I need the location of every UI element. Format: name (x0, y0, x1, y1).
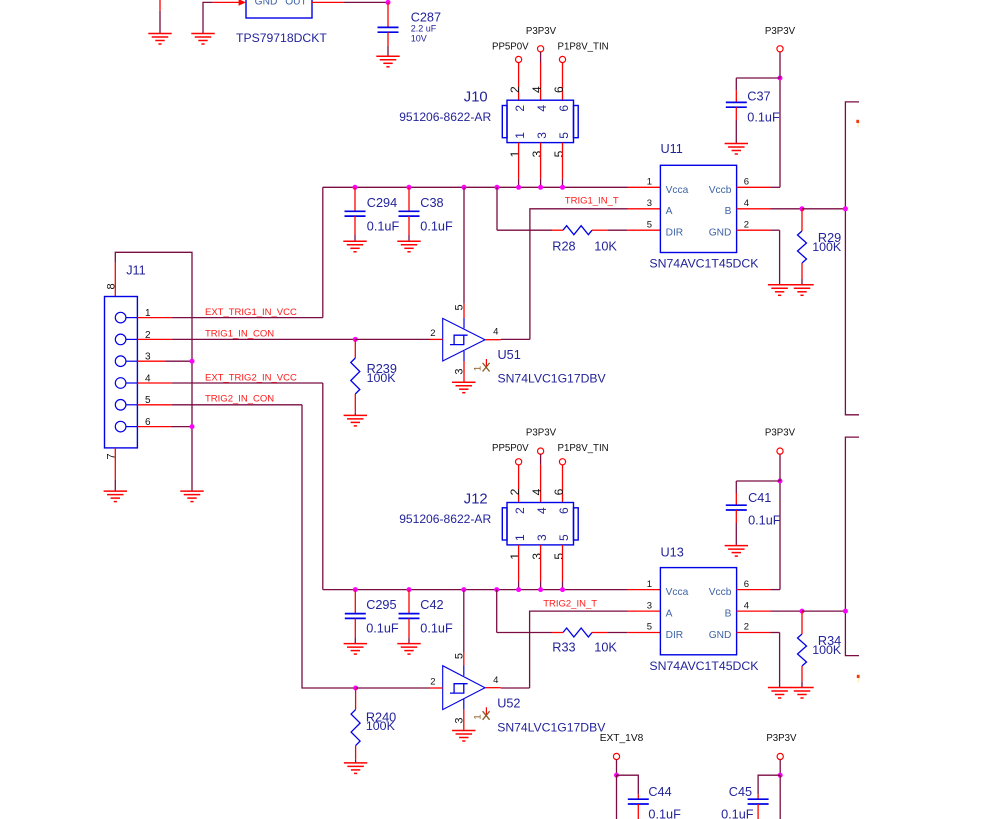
ground (397, 240, 420, 242)
resistor R33 10K (563, 628, 592, 637)
svg-text:OUT: OUT (285, 0, 307, 8)
wire bus to U52 pin 5 (463, 590, 465, 652)
svg-text:1: 1 (647, 177, 652, 188)
svg-text:Vcca: Vcca (666, 185, 689, 196)
capacitor C45 (758, 775, 780, 794)
svg-text:R33: R33 (552, 641, 575, 655)
ground (344, 414, 367, 416)
svg-text:B: B (725, 609, 732, 620)
svg-text:3: 3 (530, 553, 544, 560)
wire from ground up to regulator GND pin (203, 2, 213, 33)
wire B net (737, 208, 771, 210)
svg-text:B: B (725, 206, 732, 217)
svg-text:100K: 100K (812, 643, 842, 657)
wire J11 pin 3 to ground bus (137, 360, 165, 362)
voltage regulator TPS79718DCKT box (cut at top) (246, 0, 312, 18)
ground (343, 240, 366, 242)
wire TRIG1_IN_T from U51 out to U11 A (530, 209, 628, 340)
wire input to regulator GND net (159, 0, 161, 11)
svg-text:C42: C42 (420, 598, 443, 612)
svg-text:A: A (666, 206, 673, 217)
svg-text:2: 2 (513, 507, 527, 514)
resistor R28 10K (563, 226, 592, 235)
svg-text:1: 1 (513, 132, 527, 139)
wire J11 pin 7 to ground (114, 448, 116, 480)
svg-text:10K: 10K (594, 240, 617, 254)
ground (148, 33, 171, 35)
svg-text:6: 6 (744, 177, 749, 188)
power P3P3V right lower (779, 454, 781, 481)
ground (790, 284, 813, 286)
wire bus to U51 pin 5 (463, 187, 465, 303)
ground (104, 490, 127, 492)
svg-text:6: 6 (744, 579, 749, 590)
svg-text:DIR: DIR (666, 228, 684, 239)
wire Vccb net to P3P3V (737, 589, 771, 591)
no-connect pin 1 of U52 (485, 707, 487, 716)
svg-text:P3P3V: P3P3V (765, 428, 796, 439)
junction (778, 76, 783, 81)
svg-text:Vcca: Vcca (666, 587, 689, 598)
wire P3P3V down (779, 775, 781, 819)
svg-text:10K: 10K (594, 641, 617, 655)
svg-text:C294: C294 (367, 196, 397, 210)
svg-text:2: 2 (513, 105, 527, 112)
capacitor C38 (408, 187, 410, 211)
svg-text:EXT_TRIG2_IN_VCC: EXT_TRIG2_IN_VCC (205, 373, 297, 384)
wire TRIG1_IN_CON from J11 pin 2 (137, 338, 171, 340)
svg-text:4: 4 (744, 198, 749, 209)
right rail wire upper (845, 102, 859, 415)
svg-text:C287: C287 (411, 11, 441, 25)
svg-text:0.1uF: 0.1uF (366, 622, 399, 636)
svg-text:J12: J12 (464, 492, 488, 508)
svg-text:6: 6 (552, 86, 566, 93)
wires J12 pins 1 3 5 to bus (518, 545, 520, 581)
ground (452, 381, 475, 383)
svg-text:P3P3V: P3P3V (766, 733, 797, 744)
svg-text:C41: C41 (748, 491, 771, 505)
capacitor C295 (354, 590, 356, 614)
svg-text:1: 1 (647, 579, 652, 590)
svg-text:3: 3 (453, 717, 465, 723)
capacitor C42 (408, 590, 410, 614)
svg-text:Vccb: Vccb (709, 587, 732, 598)
capacitor C37 (736, 77, 780, 79)
capacitor C287 (387, 2, 389, 27)
wire GND pin net (737, 229, 771, 231)
svg-text:SN74AVC1T45DCK: SN74AVC1T45DCK (649, 659, 759, 673)
svg-text:0.1uF: 0.1uF (648, 808, 681, 819)
svg-text:J11: J11 (126, 263, 146, 277)
junction (353, 686, 358, 691)
junction nodes on bus (353, 587, 358, 592)
svg-text:1: 1 (472, 714, 483, 719)
svg-text:2: 2 (508, 488, 522, 495)
svg-text:TRIG1_IN_CON: TRIG1_IN_CON (205, 328, 274, 339)
svg-text:GND: GND (709, 228, 732, 239)
svg-text:C295: C295 (366, 598, 396, 612)
ground (397, 643, 420, 645)
svg-text:6: 6 (557, 105, 571, 112)
svg-text:TPS79718DCKT: TPS79718DCKT (236, 31, 327, 45)
svg-text:3: 3 (647, 198, 652, 209)
svg-text:SN74AVC1T45DCK: SN74AVC1T45DCK (649, 256, 759, 270)
svg-text:0.1uF: 0.1uF (747, 110, 780, 124)
svg-text:3: 3 (530, 150, 544, 157)
wires J10 pins 1 3 5 to bus (518, 143, 520, 179)
op-amp buffer U51 SN74LVC1G17DBV (443, 318, 485, 361)
svg-text:2.2 uF: 2.2 uF (411, 24, 437, 34)
svg-text:C44: C44 (648, 785, 671, 799)
svg-text:8: 8 (105, 283, 117, 289)
svg-text:P1P8V_TIN: P1P8V_TIN (558, 443, 609, 454)
svg-text:5: 5 (453, 653, 465, 659)
wire Vccb net to P3P3V (737, 186, 771, 188)
no-connect pin 1 of U51 (485, 359, 487, 368)
ground (725, 545, 748, 547)
svg-text:100K: 100K (367, 371, 397, 385)
svg-text:A: A (666, 609, 673, 620)
ground (344, 762, 367, 764)
ground (191, 33, 214, 35)
svg-text:P1P8V_TIN: P1P8V_TIN (558, 41, 609, 52)
svg-text:10V: 10V (411, 33, 427, 43)
svg-text:0.1uF: 0.1uF (721, 808, 754, 819)
svg-text:U51: U51 (498, 348, 521, 362)
wire bus EXT_TRIG2_IN_VCC (323, 589, 628, 591)
svg-text:4: 4 (493, 327, 498, 338)
svg-text:0.1uF: 0.1uF (748, 513, 781, 527)
capacitor C41 (736, 480, 780, 482)
capacitor C44 (617, 775, 639, 794)
svg-text:1: 1 (513, 534, 527, 541)
svg-text:2: 2 (744, 622, 749, 633)
svg-text:1: 1 (472, 366, 483, 371)
svg-text:J10: J10 (464, 89, 488, 105)
svg-text:SN74LVC1G17DBV: SN74LVC1G17DBV (498, 372, 607, 386)
svg-text:PP5P0V: PP5P0V (492, 443, 529, 454)
ground (768, 284, 791, 286)
op-amp buffer U52 SN74LVC1G17DBV (443, 666, 485, 710)
svg-text:C38: C38 (420, 196, 443, 210)
wire TRIG2_IN_T from U52 out to U13 A (530, 611, 628, 688)
svg-text:PP5P0V: PP5P0V (492, 41, 529, 52)
junction nodes on bus (353, 185, 358, 190)
ground (725, 143, 748, 145)
svg-text:GND: GND (255, 0, 278, 8)
svg-text:Vccb: Vccb (709, 185, 732, 196)
svg-text:P3P3V: P3P3V (526, 428, 557, 439)
svg-text:U11: U11 (661, 142, 683, 156)
power P3P3V right (779, 52, 781, 78)
svg-text:100K: 100K (812, 240, 842, 254)
svg-text:0.1uF: 0.1uF (420, 622, 453, 636)
svg-text:3: 3 (535, 132, 549, 139)
wire U51 pin 3 to ground (463, 351, 465, 361)
svg-text:4: 4 (535, 507, 549, 514)
svg-text:3: 3 (647, 600, 652, 611)
svg-text:5: 5 (557, 534, 571, 541)
svg-text:1: 1 (508, 150, 522, 157)
IC U13 SN74AVC1T45DCK (660, 568, 736, 655)
ground (452, 730, 475, 732)
svg-text:2: 2 (430, 328, 435, 339)
junction (386, 0, 391, 5)
wire B net lower (737, 610, 771, 612)
svg-text:6: 6 (557, 507, 571, 514)
svg-text:TRIG2_IN_CON: TRIG2_IN_CON (205, 394, 274, 405)
svg-text:4: 4 (530, 86, 544, 93)
connector J11 (105, 297, 138, 448)
svg-text:5: 5 (552, 150, 566, 157)
svg-text:2: 2 (508, 86, 522, 93)
ground (376, 55, 399, 57)
svg-text:2: 2 (744, 219, 749, 230)
svg-text:EXT_TRIG1_IN_VCC: EXT_TRIG1_IN_VCC (205, 307, 297, 318)
svg-text:EXT_1V8: EXT_1V8 (600, 733, 644, 744)
junction (778, 479, 783, 484)
wire bus EXT_TRIG1_IN_VCC (323, 186, 628, 188)
resistor R240 100K (355, 688, 357, 710)
svg-text:P3P3V: P3P3V (765, 26, 796, 37)
svg-text:6: 6 (552, 488, 566, 495)
connector J10 (507, 100, 574, 142)
svg-text:5: 5 (552, 553, 566, 560)
resistor R29 100K (801, 209, 803, 231)
wire EXT_1V8 down (616, 775, 618, 819)
wire TRIG2_IN_CON from J11 pin 5 (137, 404, 171, 406)
svg-text:0.1uF: 0.1uF (420, 219, 453, 233)
svg-text:SN74LVC1G17DBV: SN74LVC1G17DBV (497, 721, 606, 735)
svg-text:DIR: DIR (666, 630, 684, 641)
svg-text:0.1uF: 0.1uF (367, 219, 400, 233)
svg-text:100K: 100K (366, 719, 396, 733)
svg-text:3: 3 (535, 534, 549, 541)
svg-text:951206-8622-AR: 951206-8622-AR (399, 512, 491, 526)
svg-text:P3P3V: P3P3V (526, 26, 557, 37)
wire bus to DIR via R28 (496, 187, 498, 230)
wire GND pin net lower (737, 632, 771, 634)
svg-text:1: 1 (508, 553, 522, 560)
svg-text:TRIG2_IN_T: TRIG2_IN_T (543, 598, 597, 609)
svg-text:C37: C37 (747, 90, 770, 104)
svg-text:7: 7 (105, 453, 117, 459)
wire EXT_TRIG2_IN_VCC from J11 pin 4 (137, 382, 171, 384)
svg-text:U13: U13 (661, 546, 684, 560)
svg-text:4: 4 (530, 488, 544, 495)
ground (180, 490, 203, 492)
wire U52 pin 3 to ground (463, 699, 465, 710)
ground (768, 687, 791, 689)
svg-text:TRIG1_IN_T: TRIG1_IN_T (565, 195, 619, 206)
svg-text:5: 5 (557, 132, 571, 139)
svg-text:5: 5 (647, 622, 652, 633)
svg-text:GND: GND (709, 630, 732, 641)
wire J11 pin 8 to ground bus (115, 252, 192, 491)
junction (614, 773, 619, 778)
svg-text:3: 3 (453, 368, 465, 374)
wire bus to DIR via R33 (496, 590, 498, 633)
svg-text:C45: C45 (729, 785, 752, 799)
svg-text:951206-8622-AR: 951206-8622-AR (399, 110, 491, 124)
IC U11 SN74AVC1T45DCK (660, 165, 736, 252)
svg-text:5: 5 (453, 304, 465, 310)
svg-text:4: 4 (493, 675, 498, 686)
ground (790, 687, 813, 689)
svg-text:2: 2 (430, 677, 435, 688)
right rail wire lower (845, 437, 859, 655)
junction (778, 773, 783, 778)
svg-text:4: 4 (535, 105, 549, 112)
ground (344, 643, 367, 645)
arrowhead into GND pin (239, 0, 246, 6)
svg-text:U52: U52 (497, 697, 520, 711)
svg-text:5: 5 (647, 219, 652, 230)
capacitor C294 (354, 187, 356, 211)
wire J11 pin 6 to ground bus (137, 426, 171, 428)
wire OUT net (312, 1, 344, 3)
svg-text:4: 4 (744, 600, 749, 611)
resistor R239 100K (354, 339, 356, 358)
wire EXT_TRIG1_IN_VCC from J11 pin 1 (137, 317, 171, 319)
junction (353, 337, 358, 342)
resistor R34 100K (801, 611, 803, 634)
connector J12 (507, 503, 574, 545)
svg-text:R28: R28 (552, 240, 575, 254)
